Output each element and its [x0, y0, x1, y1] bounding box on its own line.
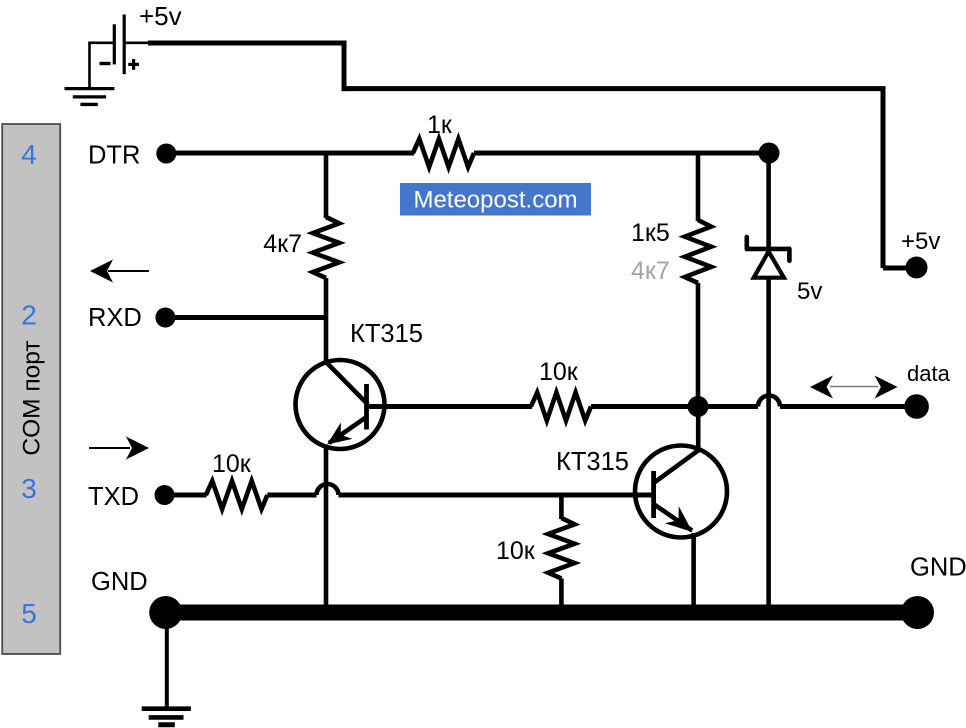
svg-text:5: 5 — [21, 598, 37, 629]
svg-text:4к7: 4к7 — [263, 230, 302, 258]
svg-text:4: 4 — [21, 139, 37, 170]
svg-text:1к5: 1к5 — [631, 219, 670, 247]
svg-text:GND: GND — [910, 554, 966, 582]
svg-text:2: 2 — [21, 300, 37, 331]
svg-text:Meteopost.com: Meteopost.com — [413, 187, 577, 214]
svg-text:GND: GND — [91, 568, 148, 596]
svg-text:data: data — [907, 361, 951, 386]
svg-text:TXD: TXD — [88, 483, 139, 511]
svg-text:+5v: +5v — [901, 228, 940, 255]
svg-text:1к: 1к — [427, 111, 453, 139]
svg-text:RXD: RXD — [88, 304, 142, 332]
svg-text:КТ315: КТ315 — [556, 448, 629, 476]
svg-text:+5v: +5v — [139, 1, 182, 31]
svg-text:DTR: DTR — [88, 142, 140, 170]
svg-text:10к: 10к — [496, 537, 536, 565]
svg-text:10к: 10к — [212, 450, 252, 478]
svg-text:10к: 10к — [539, 358, 579, 386]
svg-text:4к7: 4к7 — [631, 257, 670, 285]
svg-text:COM порт: COM порт — [19, 340, 46, 455]
svg-text:КТ315: КТ315 — [350, 320, 423, 348]
svg-text:3: 3 — [21, 473, 37, 504]
svg-text:5v: 5v — [797, 278, 822, 305]
